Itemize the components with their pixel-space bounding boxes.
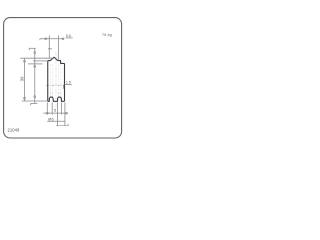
dot arrow top — [24, 60, 26, 62]
svg-text:21049: 21049 — [8, 128, 21, 133]
hidden bore line left outer faint — [49, 64, 51, 92]
bottom extension to left — [22, 100, 48, 102]
part bottom edge with two scallops — [48, 97, 65, 101]
hidden line bore left inner — [52, 92, 54, 97]
dot arrow bottom — [24, 97, 26, 99]
hidden line bore right outer — [60, 92, 62, 97]
tick at bottom bracket — [30, 103, 32, 105]
svg-text:76 kg: 76 kg — [102, 33, 112, 37]
part outline — [48, 57, 65, 101]
dot arrow right — [66, 112, 68, 114]
left extension shoulder — [33, 60, 48, 62]
top extension line left — [48, 35, 50, 58]
bottom extension scallop2 left — [57, 102, 59, 126]
bottom extension scallop1 — [51, 102, 53, 114]
left extension step — [28, 63, 42, 65]
tick at top bracket — [28, 48, 30, 50]
top dimension line 5.6 — [39, 39, 41, 41]
bottom extension scallop2 right — [61, 102, 63, 114]
bottom extension right wall — [64, 102, 66, 126]
dot arrow left — [46, 112, 48, 114]
dimension line 5 — [43, 112, 67, 114]
dot arrow 1 — [34, 52, 36, 54]
top bracket extension — [29, 47, 36, 49]
dot arrow 3 — [34, 96, 36, 98]
bottom bracket extension inner — [31, 102, 38, 104]
row3 end tick — [67, 124, 69, 126]
leader tick — [62, 85, 64, 89]
drawing sheet frame — [4, 18, 122, 138]
hidden bore line right inner faint — [57, 64, 59, 92]
dimension line row3 — [56, 124, 68, 126]
underline shelf for 5.6 — [65, 37, 72, 39]
dimension line 39 — [24, 58, 26, 101]
hidden line bore left outer — [49, 92, 51, 97]
hidden bore line left inner faint — [52, 64, 54, 92]
hidden line bore right inner — [57, 92, 59, 97]
leader shelf 1.5 — [64, 84, 71, 86]
dot arrow 2 — [34, 65, 36, 67]
crossbar tick on left extension — [48, 48, 52, 50]
groove center dash-dot line — [46, 84, 64, 86]
svg-text:1.5: 1.5 — [66, 80, 71, 84]
left extension apex — [20, 57, 54, 59]
dot arrow left — [45, 38, 47, 40]
hidden bore line right outer faint — [60, 64, 62, 92]
centerline — [55, 53, 57, 108]
dimension line O6 — [47, 120, 65, 122]
top extension line right — [58, 35, 60, 60]
svg-text:Ø6: Ø6 — [48, 116, 54, 121]
dot arrow right — [62, 38, 64, 40]
bottom extension left wall — [46, 102, 48, 114]
svg-text:39: 39 — [20, 76, 25, 81]
inner dimension line — [34, 48, 36, 103]
